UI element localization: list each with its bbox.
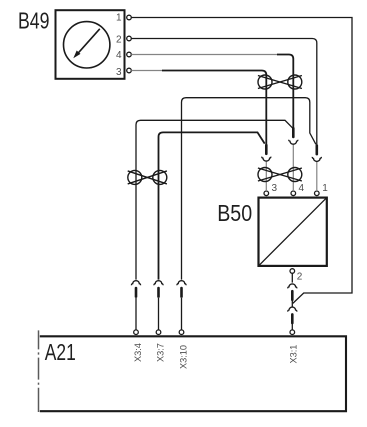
- svg-text:B49: B49: [18, 8, 50, 34]
- svg-text:2: 2: [297, 272, 303, 283]
- svg-text:X3:4: X3:4: [133, 343, 143, 362]
- svg-text:4: 4: [116, 50, 122, 61]
- svg-text:1: 1: [116, 13, 122, 24]
- svg-text:X3:1: X3:1: [288, 345, 298, 364]
- svg-text:A21: A21: [45, 339, 76, 365]
- svg-text:B50: B50: [217, 200, 252, 226]
- svg-text:3: 3: [272, 183, 278, 194]
- svg-text:1: 1: [322, 183, 328, 194]
- svg-text:X3:7: X3:7: [156, 343, 166, 362]
- svg-text:2: 2: [116, 34, 122, 45]
- svg-text:3: 3: [116, 67, 122, 78]
- svg-text:4: 4: [299, 183, 305, 194]
- svg-text:X3:10: X3:10: [179, 345, 189, 369]
